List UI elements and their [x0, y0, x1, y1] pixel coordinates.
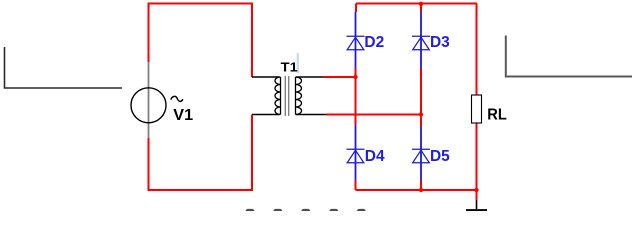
svg-text:RL: RL: [487, 107, 507, 124]
svg-text:D5: D5: [430, 148, 450, 165]
svg-text:T1: T1: [281, 60, 298, 75]
svg-text:D4: D4: [365, 148, 385, 165]
svg-text:V1: V1: [173, 107, 193, 124]
svg-text:D2: D2: [364, 34, 384, 51]
svg-text:D3: D3: [430, 34, 450, 51]
